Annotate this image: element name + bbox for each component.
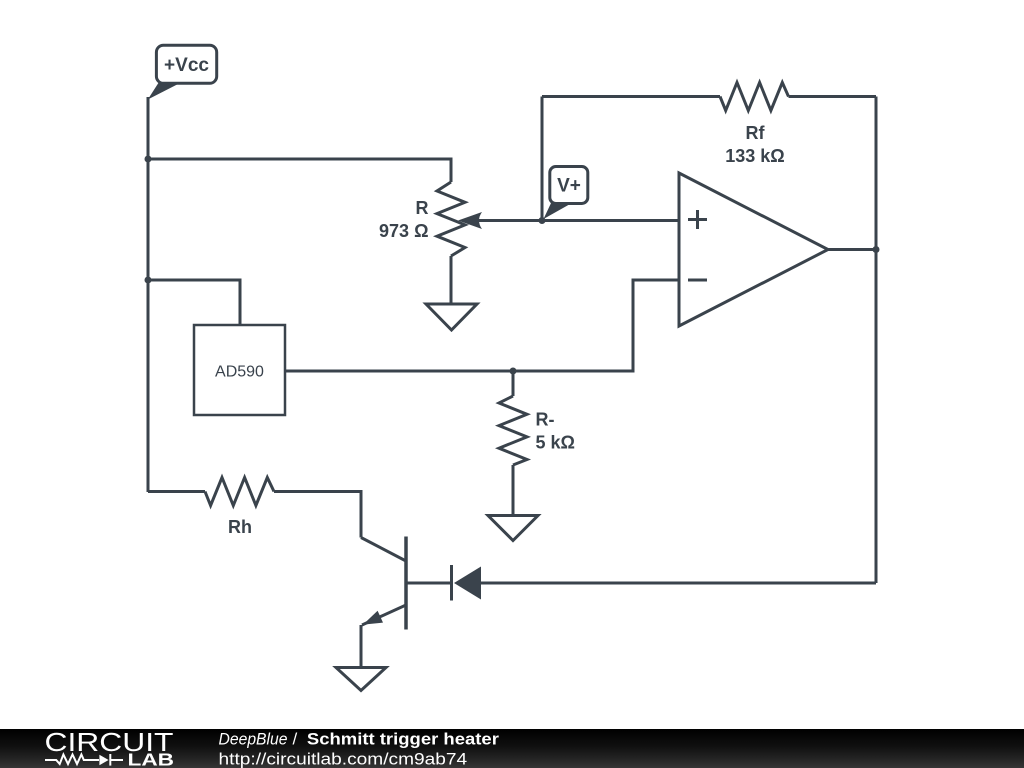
potentiometer wiper arrow xyxy=(458,212,542,229)
wire left vertical middle segment xyxy=(147,159,150,280)
wire from left rail to AD590 xyxy=(148,280,240,325)
svg-text:5 kΩ: 5 kΩ xyxy=(536,433,575,453)
node junction op-amp output xyxy=(873,246,880,253)
wire top horizontal to potentiometer xyxy=(148,159,451,182)
ground under potentiometer xyxy=(426,304,477,330)
svg-text:/: / xyxy=(293,730,298,749)
wire left vertical lower segment xyxy=(147,280,150,492)
transistor Q1 collector lead xyxy=(361,538,406,562)
node junction at (148,159) xyxy=(145,156,152,163)
wire from V+ node to op-amp plus input xyxy=(542,219,679,222)
svg-text:973 Ω: 973 Ω xyxy=(379,221,428,241)
wire R- lower lead xyxy=(512,465,515,516)
transistor Q1 emitter lead with arrow xyxy=(362,605,406,625)
resistor Rf body xyxy=(720,83,789,111)
svg-text:R-: R- xyxy=(536,410,555,430)
wire Rh to transistor collector xyxy=(274,492,361,538)
wire op-amp output xyxy=(828,248,876,251)
net flag +Vcc xyxy=(148,45,217,99)
svg-text:V+: V+ xyxy=(557,176,581,197)
node junction at (148,280) xyxy=(145,277,152,284)
diode D1 xyxy=(452,565,482,601)
svg-text:LAB: LAB xyxy=(128,750,175,768)
label R 973 ohm xyxy=(379,198,428,241)
wire feedback top right xyxy=(789,95,877,98)
wire left rail to Rh xyxy=(148,490,205,493)
node junction V+ at (542,220.5) xyxy=(539,217,546,224)
label Rf 133 kohm xyxy=(725,123,784,166)
ground under transistor emitter xyxy=(336,668,386,691)
transistor Q1 base bar xyxy=(404,537,408,630)
wire diode anode to right rail xyxy=(481,582,876,585)
resistor R (potentiometer body) xyxy=(437,182,465,256)
footer bar xyxy=(0,729,1024,768)
net flag V+ xyxy=(544,167,588,220)
wire transistor base to diode xyxy=(406,582,450,585)
IC AD590 box xyxy=(194,325,285,415)
svg-text:133 kΩ: 133 kΩ xyxy=(725,146,784,166)
resistor R- body xyxy=(499,396,527,465)
resistor Rh body xyxy=(205,478,274,506)
resistor R- upper lead xyxy=(512,371,515,396)
node junction at (513,371) xyxy=(510,368,517,375)
wire emitter down xyxy=(360,625,363,668)
svg-text:DeepBlue: DeepBlue xyxy=(219,730,288,749)
wire pot lower lead xyxy=(450,256,453,304)
svg-text:Schmitt trigger heater: Schmitt trigger heater xyxy=(307,730,499,749)
svg-text:Rf: Rf xyxy=(746,123,766,143)
wire feedback top left xyxy=(542,95,720,98)
svg-text:+Vcc: +Vcc xyxy=(164,55,209,76)
label R- 5 kohm xyxy=(536,410,575,453)
wire feedback left vertical xyxy=(541,97,544,221)
svg-text:Rh: Rh xyxy=(228,517,252,537)
svg-text:R: R xyxy=(416,198,429,218)
svg-text:AD590: AD590 xyxy=(215,364,264,381)
svg-text:http://circuitlab.com/cm9ab74: http://circuitlab.com/cm9ab74 xyxy=(219,749,468,768)
logo squiggle resistor+diode xyxy=(45,754,123,766)
ground under R- xyxy=(488,516,538,541)
op-amp U1 xyxy=(679,173,828,326)
wire op-amp minus input path xyxy=(285,280,679,371)
wire Vcc down to first junction xyxy=(147,97,150,159)
wire right vertical from feedback to diode xyxy=(875,97,878,584)
